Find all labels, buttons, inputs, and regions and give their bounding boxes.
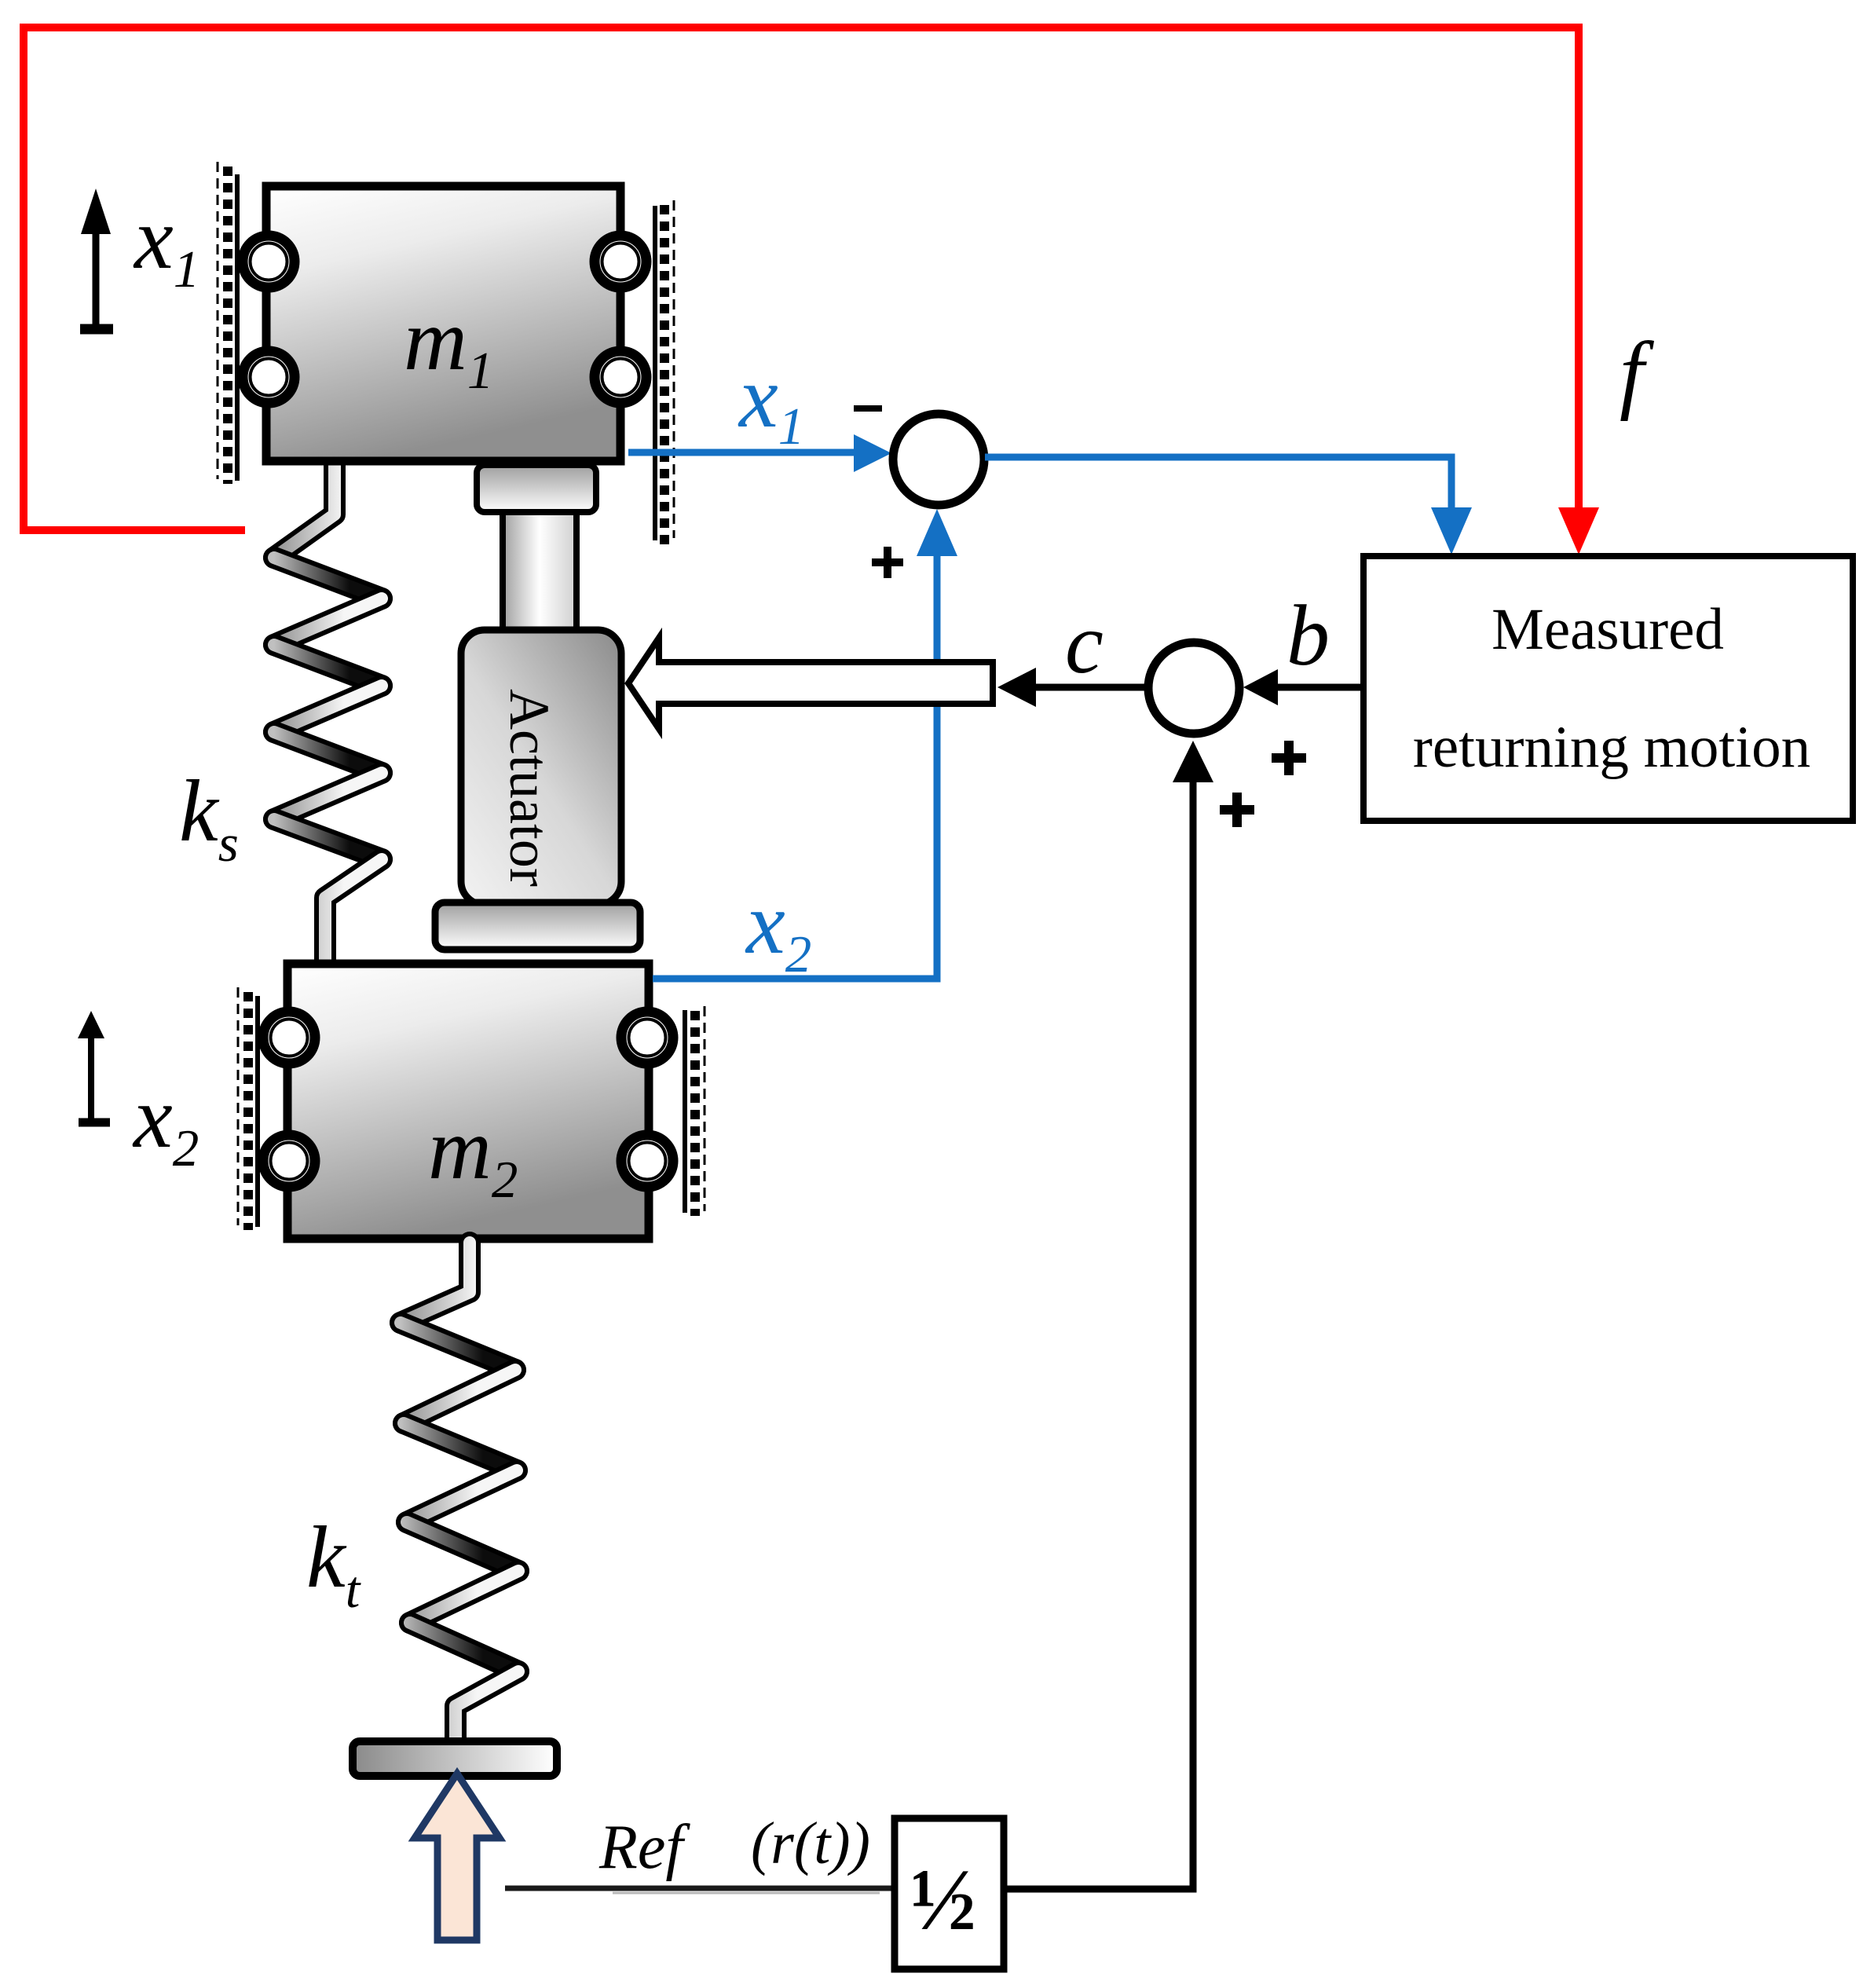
roller m2 bottom-right — [621, 1135, 673, 1187]
actuator bottom flange — [435, 902, 640, 950]
summing junction S2 — [1148, 643, 1239, 734]
svg-text:x2: x2 — [132, 1069, 199, 1177]
blue wire x2 from m2 to summing junction S1 — [653, 555, 937, 979]
wire Ref into half block — [505, 1886, 891, 1891]
svg-text:x1: x1 — [738, 349, 804, 456]
blue arrowhead x2 into S1 bottom — [917, 509, 957, 556]
svg-text:Ref: Ref — [598, 1813, 690, 1882]
black arrowhead c — [997, 668, 1036, 707]
minus sign S1 — [854, 405, 882, 412]
roller m2 bottom-left — [263, 1135, 315, 1187]
hollow force arrow into actuator — [628, 638, 993, 729]
arrowhead into S2 bottom — [1173, 741, 1213, 782]
actuator top mount block — [477, 465, 596, 512]
blue wire S1 output to measured box — [985, 457, 1451, 511]
svg-text:f: f — [1620, 324, 1655, 422]
svg-text:ks: ks — [179, 763, 239, 873]
black arrowhead b into S2 — [1243, 669, 1278, 705]
measured returning motion box — [1363, 556, 1853, 821]
summing junction S1 — [893, 414, 984, 505]
roller m1 bottom-left — [243, 351, 295, 403]
svg-text:b: b — [1287, 588, 1330, 683]
blue wire x1 from m1 to summing junction S1 — [628, 449, 855, 456]
wire b from measured box to S2 — [1276, 684, 1360, 691]
roller m2 top-left — [263, 1012, 315, 1064]
wall hatch right of m1 — [655, 200, 674, 544]
plus sign S2 bottom input — [1220, 793, 1254, 827]
svg-text:(r(t)): (r(t)) — [751, 1810, 870, 1876]
svg-text:x1: x1 — [133, 190, 199, 298]
wall hatch left of m2 — [238, 987, 258, 1230]
blue arrowhead into measured box — [1431, 507, 1472, 555]
wall hatch left of m1 — [218, 162, 237, 484]
svg-text:Actuator: Actuator — [498, 689, 561, 887]
indicator arrow x1 — [80, 231, 113, 329]
spring kt — [401, 1243, 518, 1740]
svg-text:Measured: Measured — [1492, 597, 1724, 662]
red arrowhead into measured box — [1558, 507, 1599, 555]
mass m2 — [287, 964, 649, 1239]
wire c from S2 to hollow arrow — [1034, 684, 1144, 691]
wall hatch right of m2 — [685, 1006, 705, 1216]
ground plate — [353, 1741, 557, 1776]
road input arrow — [415, 1774, 500, 1940]
plus sign S1 bottom input — [872, 547, 903, 578]
roller m1 top-right — [595, 236, 646, 287]
roller m1 bottom-right — [595, 351, 646, 403]
blue arrowhead x1 into S1 — [854, 434, 891, 472]
actuator cylinder body — [461, 630, 621, 905]
svg-text:x2: x2 — [745, 875, 811, 983]
red feedback wire f loop — [24, 27, 1579, 530]
svg-text:returning motion: returning motion — [1413, 715, 1810, 780]
plus sign b input — [1272, 741, 1306, 775]
svg-text:kt: kt — [306, 1509, 361, 1619]
spring ks — [274, 465, 382, 963]
svg-text:c: c — [1065, 595, 1104, 691]
svg-text:½: ½ — [910, 1851, 976, 1949]
indicator arrow x2 — [79, 1035, 110, 1122]
wire from half block to summing junction S2 — [1007, 781, 1193, 1889]
roller m1 top-left — [243, 236, 295, 287]
actuator piston rod — [503, 509, 576, 635]
mass m1 — [266, 186, 620, 461]
gain block 1/2 — [895, 1818, 1004, 1969]
roller m2 top-right — [621, 1012, 673, 1064]
